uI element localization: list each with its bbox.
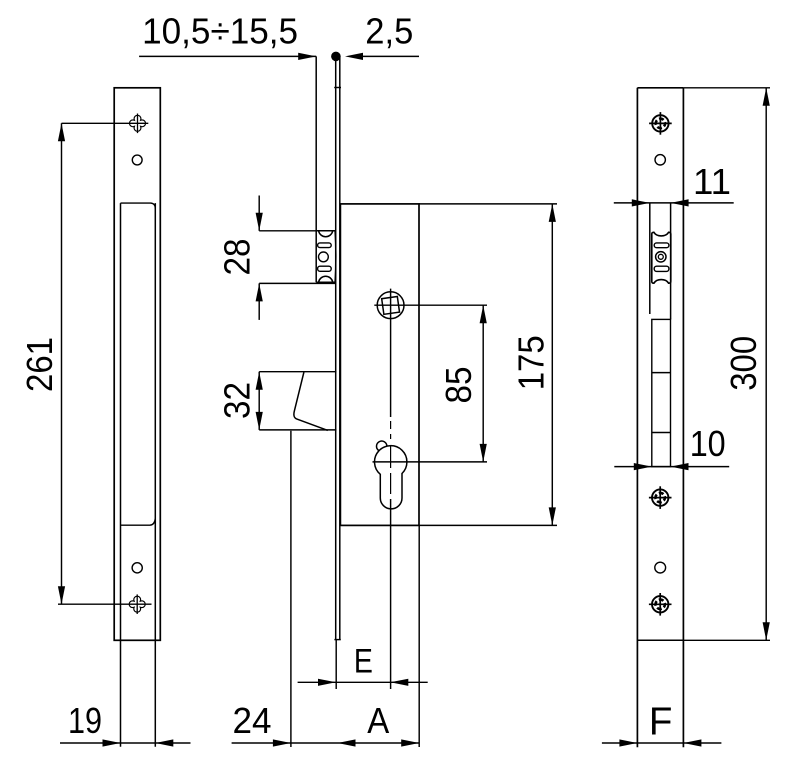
- dim 10 arrow left: [671, 463, 689, 470]
- right view: top screw: [652, 115, 668, 131]
- follower horizontal centerline: [374, 304, 487, 306]
- left view: top hole: [132, 155, 142, 165]
- latch screw circle: [319, 252, 329, 262]
- right view: plate top edge: [637, 87, 683, 89]
- left view: slot top edge: [121, 203, 156, 208]
- svg-text:10: 10: [690, 423, 726, 464]
- latch housing outline: [316, 231, 336, 282]
- dim 28 arrow down: [256, 213, 263, 231]
- dim 10 arrow right: [634, 463, 652, 470]
- hook bolt nose: [294, 372, 328, 430]
- dim 32 arrow down: [256, 412, 263, 430]
- dim 24 arrow: [273, 739, 291, 746]
- svg-text:2,5: 2,5: [365, 11, 413, 52]
- dim 85 line: [482, 305, 484, 462]
- dim 300 ext top: [683, 87, 770, 89]
- euro cylinder outline: [375, 446, 407, 509]
- left view: bottom hole: [132, 563, 142, 573]
- dim E arrow right: [318, 679, 336, 686]
- svg-text:11: 11: [693, 161, 731, 202]
- dim 175 ext bottom: [419, 524, 557, 526]
- faceplate left line: [335, 56, 337, 639]
- dim 175 ext top: [419, 203, 557, 205]
- dim A arrow left: [338, 739, 356, 746]
- latch slot lower: [318, 266, 332, 271]
- dim 32 ext bottom: [259, 429, 336, 431]
- cylinder horizontal centerline: [373, 461, 488, 463]
- follower circle: [377, 292, 404, 319]
- right view: latch slot right: [670, 203, 672, 319]
- dim 261 extension top: [62, 122, 149, 124]
- dim 175 arrow down: [549, 507, 556, 525]
- dim 261 extension bottom: [58, 603, 152, 605]
- dim 300 line: [765, 88, 767, 641]
- dim 10,5-15,5 line: [139, 55, 316, 57]
- dim 10,5-15,5 arrow: [298, 53, 316, 60]
- dim 85 arrow down: [480, 444, 487, 462]
- dim 11 arrow right: [632, 199, 650, 206]
- dim 32 arrow up: [256, 372, 263, 390]
- dim 24-A line: [232, 742, 420, 744]
- dim F arrow left: [683, 739, 701, 746]
- dim 28 arrow up: [256, 283, 263, 301]
- dim 85 arrow up: [480, 305, 487, 323]
- dim 261 arrow down: [58, 586, 65, 604]
- dim 300 arrow down: [763, 622, 770, 640]
- right view: plate bottom divider: [637, 639, 683, 641]
- dim 19 line: [60, 742, 191, 744]
- dim 11 line: [614, 202, 734, 204]
- roller slot upper: [654, 243, 669, 248]
- dim 28 ext bottom: [259, 282, 335, 284]
- left view: bottom countersunk screw: [129, 596, 145, 612]
- dim 175 arrow up: [549, 204, 556, 222]
- dim 28 ext top: [259, 230, 316, 232]
- faceplate extension to E dim: [335, 640, 337, 689]
- latch roller top arc: [319, 231, 333, 237]
- body right extension: [418, 525, 420, 747]
- svg-text:32: 32: [217, 382, 258, 419]
- dim 11 arrow left: [671, 199, 689, 206]
- right view: bottom hole: [655, 562, 666, 573]
- faceplate bottom cap: [334, 639, 340, 641]
- follower square: [382, 296, 400, 314]
- dim 2,5 arrow: [345, 53, 363, 60]
- left view: outer plate: [114, 88, 160, 641]
- left view: top countersunk screw: [130, 115, 146, 131]
- door reference line: [315, 56, 317, 230]
- reference dot: [331, 52, 341, 62]
- right view: bottom screw 1: [652, 489, 668, 505]
- dim 32 line: [258, 372, 260, 430]
- dim A arrow right: [401, 739, 419, 746]
- latch slot upper: [318, 243, 332, 248]
- cylinder slot divider 2: [652, 432, 671, 434]
- dim 175 line: [551, 204, 553, 526]
- svg-text:10,5÷15,5: 10,5÷15,5: [142, 11, 298, 52]
- dim 10 line: [614, 466, 729, 468]
- dim 2,5 line: [362, 55, 419, 57]
- hook extension line for 24: [290, 431, 292, 747]
- svg-text:85: 85: [438, 367, 479, 404]
- right view: bottom screw 2: [652, 596, 668, 612]
- roller slot lower: [654, 266, 669, 271]
- centerline dashes: [390, 421, 392, 494]
- right view: plate left edge: [636, 88, 638, 748]
- svg-text:A: A: [367, 700, 390, 741]
- dim 28 line top: [258, 196, 260, 231]
- roller outline: [652, 232, 671, 283]
- faceplate right line: [339, 56, 341, 639]
- dim 261 arrow up: [58, 123, 65, 141]
- faceplate top tick: [334, 87, 341, 89]
- right view: latch slot left: [649, 203, 651, 314]
- roller screw inner: [658, 254, 663, 259]
- svg-text:F: F: [649, 701, 673, 744]
- dim 19 arrow right: [103, 739, 121, 746]
- svg-text:28: 28: [217, 239, 258, 276]
- cylinder bump: [377, 441, 387, 451]
- left view: slot bottom divider: [121, 519, 156, 526]
- dim E line: [298, 681, 428, 683]
- follower vertical centerline: [390, 289, 392, 417]
- left view: inner box left wall: [120, 203, 122, 747]
- cylinder slot divider 1: [652, 372, 671, 374]
- svg-text:E: E: [354, 643, 373, 681]
- svg-text:19: 19: [68, 700, 102, 741]
- dim 300 arrow up: [763, 88, 770, 106]
- dim 261 line: [61, 123, 63, 604]
- latch roller bottom arc: [319, 276, 333, 282]
- cylinder slot: [652, 319, 671, 466]
- right view: top hole: [655, 155, 665, 165]
- lock body: [340, 204, 419, 526]
- dim E arrow left: [390, 679, 408, 686]
- svg-text:175: 175: [511, 335, 552, 390]
- dim 19 arrow left: [155, 739, 173, 746]
- svg-text:261: 261: [19, 337, 60, 392]
- dim 300 ext bottom: [683, 639, 770, 641]
- left view: inner box right wall: [154, 203, 156, 747]
- dim 28 line bottom: [258, 283, 260, 320]
- svg-text:24: 24: [233, 700, 272, 741]
- dim 32 ext top: [259, 371, 336, 373]
- cylinder extension line down: [390, 499, 392, 689]
- dim F line: [602, 742, 722, 744]
- roller screw outer: [656, 252, 666, 262]
- right view: plate right edge: [682, 88, 684, 748]
- dim F arrow right: [619, 739, 637, 746]
- svg-text:300: 300: [723, 336, 764, 391]
